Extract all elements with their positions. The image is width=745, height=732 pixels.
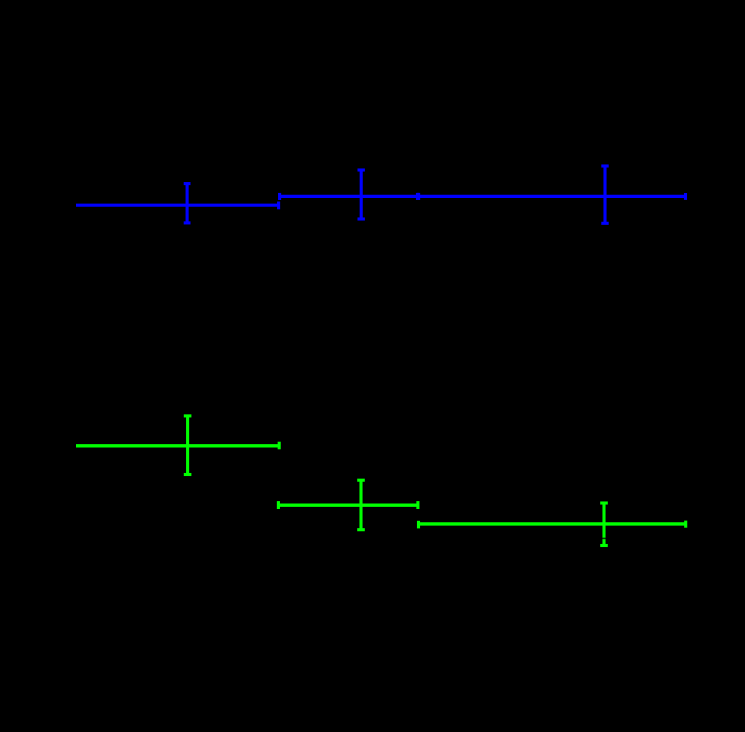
black reference line crossing green point 3 error bar [601,537,607,539]
green series point 2: top cap [357,479,365,482]
blue series point 2: top cap [358,168,365,171]
blue series bin 2: left end cap at x=279.1 [278,193,281,200]
blue series point 1: bottom cap [184,221,191,224]
blue series point 1: y-error bar at x=187.1 [186,184,189,223]
blue series bin 2: right end cap at x=417.5 [416,193,419,200]
green series point 3: y-error bar at x=604 [602,503,605,546]
green series point 1: top cap [184,414,192,417]
green series point 1: bottom cap [184,473,192,476]
green series bin 1: x-error bar (76 to 279.2) at y=445.5 [76,444,279,447]
green series point 2: y-error bar at x=361 [359,480,362,530]
green series point 1: y-error bar at x=187.6 [186,416,189,475]
blue series bin 3: x-error bar (418 to 685.5) at y=196.4 [419,195,686,198]
blue series point 3: y-error bar at x=605 [603,166,606,223]
green series bin 3: x-error bar (418.5 to 685.7) at y=523.6 [419,522,686,525]
green series bin 2: left end cap at x=278.4 [277,501,280,509]
blue series bin 1: x-error bar (76 to 279) at y=205.4 [76,204,279,207]
green series bin 3: left end cap at x=418.5 [417,521,420,529]
blue series point 3: bottom cap [601,222,608,225]
blue series point 3: top cap [601,164,608,167]
blue series bin 3: right end cap at x=685.5 [684,193,687,200]
blue series bin 1: right end cap at x=279.1 [277,202,280,210]
green series bin 2: right end cap at x=417.9 [416,501,419,509]
green series point 2: bottom cap [357,528,365,531]
green series bin 2: x-error bar (278.4 to 417.9) at y=504.8 [278,504,418,507]
blue series point 2: y-error bar at x=361.2 [360,170,363,219]
blue series bin 2: x-error bar (279 to 418) at y=196.4 [279,195,417,198]
green series bin 1: right end cap at x=279.2 [278,442,281,450]
green series point 3: bottom cap [600,544,608,547]
blue series point 2: bottom cap [358,217,365,220]
blue series point 1: top cap [184,182,191,185]
blue series bin 3: left end cap at x=418.6 [417,193,420,200]
green series bin 3: right end cap at x=685.7 [684,521,687,528]
green series point 3: top cap [600,501,608,504]
